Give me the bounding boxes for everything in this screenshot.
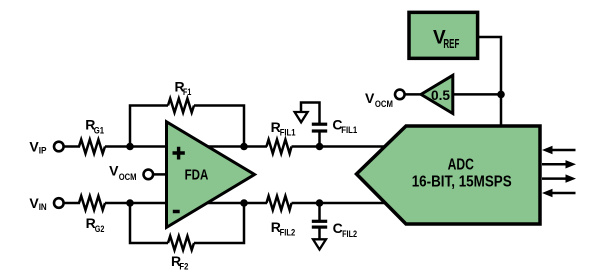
wire V_OCM to FDA	[153, 173, 167, 176]
svg-text:FIL1: FIL1	[341, 125, 358, 136]
ADC block	[357, 126, 541, 224]
wire V_OCM terminal to 0.5 buffer	[405, 93, 422, 96]
svg-text:V: V	[365, 90, 375, 106]
capacitor C_FIL1	[318, 131, 321, 147]
V_REF box	[409, 12, 478, 58]
ground for C_FIL1	[295, 112, 308, 122]
resistor R_FIL1	[267, 140, 292, 154]
node at V_IN line	[126, 199, 134, 207]
resistor R_F1	[168, 99, 194, 113]
node C_FIL2	[316, 199, 324, 207]
svg-text:FIL1: FIL1	[280, 127, 296, 138]
svg-text:FDA: FDA	[185, 167, 209, 184]
terminal V_OCM right	[395, 90, 405, 100]
FDA - input symbol	[173, 210, 180, 214]
wire feedback bottom right	[194, 203, 244, 243]
svg-text:IP: IP	[39, 146, 47, 157]
ADC output arrow 2 (out, right)	[542, 163, 567, 166]
svg-text:OCM: OCM	[119, 172, 137, 183]
wire feedback top right	[194, 106, 244, 147]
svg-text:FIL2: FIL2	[342, 229, 357, 240]
wire V_IP input line	[64, 145, 80, 148]
wire R_G1 to FDA + input	[105, 145, 167, 148]
wire R_FIL2 to ADC	[292, 202, 389, 205]
wire FDA top output	[200, 145, 267, 148]
terminal V_OCM left	[144, 170, 154, 180]
node FDA top output junction	[240, 143, 248, 151]
capacitor C_FIL2	[318, 203, 321, 221]
resistor R_G2	[79, 196, 105, 210]
node V_REF line junction	[497, 91, 505, 99]
svg-text:FIL2: FIL2	[280, 228, 296, 239]
wire R_G2 to FDA - input	[105, 202, 167, 205]
svg-text:REF: REF	[443, 37, 459, 51]
svg-text:V: V	[109, 163, 119, 179]
terminal V_IP	[54, 142, 64, 152]
ADC output arrow 3 (out, right)	[542, 177, 567, 180]
svg-text:F1: F1	[183, 87, 192, 98]
svg-text:G1: G1	[94, 126, 105, 137]
svg-text:ADC: ADC	[448, 156, 475, 173]
wire R_FIL1 to ADC	[292, 145, 389, 148]
node FDA bottom output junction	[240, 199, 248, 207]
svg-text:G2: G2	[95, 224, 105, 235]
svg-text:OCM: OCM	[375, 99, 393, 110]
terminal V_IN	[54, 198, 64, 208]
op-amp FDA	[167, 122, 255, 228]
resistor R_FIL2	[267, 196, 292, 210]
wire feedback top left vertical	[130, 106, 168, 147]
wire V_REF to ADC vertical	[478, 37, 501, 127]
FDA + input symbol	[173, 147, 185, 160]
node at V_IP line	[126, 143, 134, 151]
svg-text:F2: F2	[179, 261, 188, 272]
svg-text:0.5: 0.5	[431, 87, 450, 103]
ADC output arrow 1 (in, left)	[551, 149, 576, 152]
wire V_IN input line	[64, 202, 80, 205]
node C_FIL1	[316, 143, 324, 151]
svg-text:16-BIT, 15MSPS: 16-BIT, 15MSPS	[412, 173, 512, 190]
svg-text:IN: IN	[39, 202, 47, 213]
wire 0.5 buffer output	[453, 93, 502, 96]
resistor R_G1	[79, 140, 105, 154]
wire feedback bottom left vertical	[130, 203, 168, 243]
ADC output arrow 4 (in, left)	[551, 192, 576, 195]
resistor R_F2	[168, 236, 194, 250]
wire FDA bottom output	[200, 202, 267, 205]
amplifier 0.5	[421, 75, 453, 113]
ground for C_FIL2	[313, 239, 326, 249]
